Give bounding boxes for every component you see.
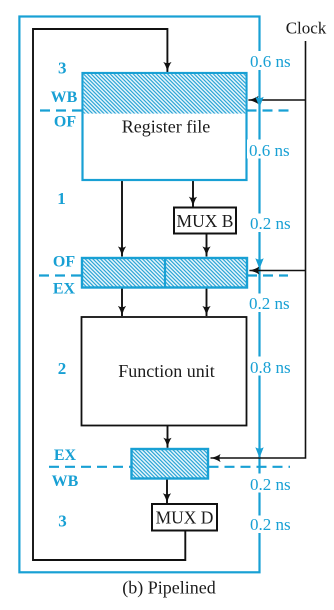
svg-text:1: 1: [57, 189, 66, 208]
svg-text:3: 3: [58, 59, 67, 78]
clock-edge arrowhead at EX/WB line: [255, 447, 263, 458]
OF/EX pipeline register (hatched): [82, 258, 247, 288]
MUX D: [152, 504, 217, 531]
OF/EX register centre divider: [164, 258, 166, 288]
svg-text:0.6 ns: 0.6 ns: [250, 52, 291, 71]
function unit box: [82, 317, 247, 426]
wire EX/WB register output to MUX D: [166, 479, 168, 504]
svg-text:0.2 ns: 0.2 ns: [250, 475, 291, 494]
svg-text:WB: WB: [51, 89, 78, 106]
MUX B: [174, 208, 236, 234]
timing label 0.6 ns (register file read): [248, 51, 291, 71]
svg-text:0.8 ns: 0.8 ns: [250, 358, 291, 377]
svg-text:EX: EX: [53, 281, 76, 298]
clock-edge arrowhead at OF/EX line: [255, 258, 263, 269]
dashed clock-edge line EX/WB (right segment): [209, 466, 291, 468]
timing label 0.2 ns (OF/EX register delay): [247, 294, 290, 314]
dashed clock-edge line OF/EX (left segment): [39, 274, 82, 276]
timing label 0.2 ns (MUX B delay): [248, 214, 291, 234]
svg-text:0.2 ns: 0.2 ns: [249, 294, 290, 313]
wire OF/EX register to function unit (left operand): [121, 288, 123, 316]
svg-text:(b) Pipelined: (b) Pipelined: [122, 578, 215, 599]
dashed clock-edge line EX/WB (left segment): [49, 466, 131, 468]
wire register file output to MUX B: [192, 181, 194, 207]
register file box: [83, 73, 247, 180]
timing label 0.2 ns (EX/WB register delay): [248, 474, 291, 495]
svg-text:MUX D: MUX D: [156, 508, 214, 528]
svg-text:MUX B: MUX B: [177, 211, 234, 231]
timing label 0.6 ns (register file access): [247, 140, 290, 161]
svg-text:0.2 ns: 0.2 ns: [250, 515, 291, 534]
svg-text:OF: OF: [53, 254, 75, 271]
wire clock branch to WB/OF register: [248, 99, 305, 101]
WB/OF pipeline register (hatched band in register file): [84, 74, 246, 114]
svg-text:WB: WB: [52, 473, 79, 490]
svg-text:EX: EX: [54, 447, 77, 464]
timing label 0.8 ns (function unit delay): [248, 357, 291, 378]
svg-text:Function unit: Function unit: [118, 361, 215, 381]
svg-text:0.2 ns: 0.2 ns: [250, 214, 291, 233]
dashed clock-edge line WB/OF (right segment): [247, 109, 290, 111]
svg-text:Clock: Clock: [286, 19, 327, 38]
wire write-back feedback loop from MUX D to Register file: [33, 29, 185, 560]
wire function unit output to EX/WB register: [167, 426, 169, 448]
outer cyan border / clock distribution frame: [19, 17, 259, 573]
svg-text:3: 3: [58, 512, 67, 531]
svg-text:Register file: Register file: [122, 117, 210, 137]
wire MUX B output to OF/EX register: [206, 234, 208, 257]
wire register file output to OF/EX register (left): [121, 181, 123, 257]
svg-text:OF: OF: [54, 114, 76, 131]
timing label 0.2 ns (MUX D delay): [248, 515, 291, 534]
dashed clock-edge line OF/EX (right segment): [247, 274, 288, 276]
clock-edge arrowhead at WB/OF line: [255, 97, 263, 108]
svg-text:2: 2: [58, 359, 67, 378]
wire clock branch to OF/EX register: [249, 270, 305, 272]
wire OF/EX register to function unit (right operand): [206, 288, 208, 316]
svg-text:0.6 ns: 0.6 ns: [249, 141, 290, 160]
dashed clock-edge line WB/OF (left segment): [40, 109, 82, 111]
EX/WB pipeline register (hatched): [132, 449, 209, 479]
wire clock line to EX/WB register: [211, 41, 306, 458]
